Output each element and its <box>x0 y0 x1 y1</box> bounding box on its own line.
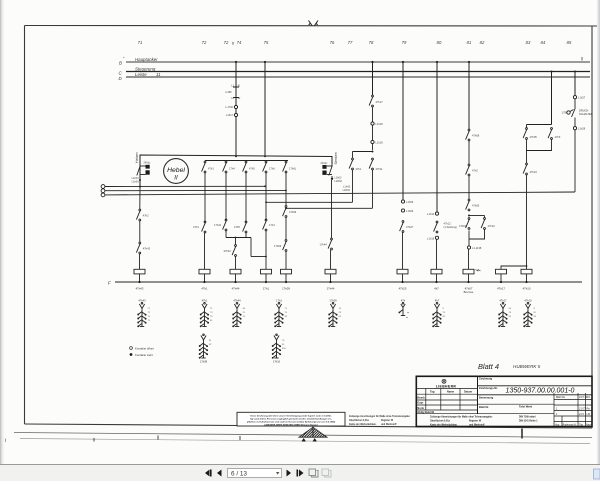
svg-text:Aug.: Aug. <box>554 424 560 427</box>
wire stub 84 <box>551 72 553 125</box>
svg-text:78: 78 <box>369 40 374 45</box>
svg-text:47h5: 47h5 <box>234 225 240 229</box>
wire col75 to coil <box>265 231 267 269</box>
svg-text:4-188: 4-188 <box>225 91 232 94</box>
svg-text:17h6: 17h6 <box>269 167 275 171</box>
svg-text:Benennung: Benennung <box>479 396 494 400</box>
switch Senken <box>327 164 333 178</box>
contact 17h41 lower <box>214 219 227 231</box>
view icon 2 <box>322 469 331 477</box>
wire col73 lower <box>225 173 227 220</box>
svg-text:L1h08: L1h08 <box>132 181 140 184</box>
svg-text:L1h14: L1h14 <box>427 212 435 216</box>
svg-text:47h12: 47h12 <box>444 222 452 226</box>
svg-text:71: 71 <box>138 40 143 45</box>
svg-text:82: 82 <box>480 40 485 45</box>
wire H2 <box>266 201 353 203</box>
svg-text:94: 94 <box>509 316 512 318</box>
F bus <box>115 281 582 283</box>
tree 4h7 <box>433 299 446 327</box>
contact 47h11 pair-right <box>369 158 383 171</box>
svg-text:47h1: 47h1 <box>208 167 214 171</box>
tree 47h17 <box>499 299 512 327</box>
svg-text:Änderung Nr.: Änderung Nr. <box>562 424 577 427</box>
svg-text:L1h05: L1h05 <box>406 200 414 204</box>
svg-text:17h1: 17h1 <box>269 223 275 227</box>
tree mini 47h25 <box>399 299 409 319</box>
svg-text:L1h15: L1h15 <box>427 236 435 240</box>
contact 47h2 col81 <box>466 164 479 176</box>
svg-text:47h44: 47h44 <box>232 287 240 291</box>
svg-text:(1-Stellung): (1-Stellung) <box>444 225 458 229</box>
wire drop 85 druckschalter <box>574 72 576 96</box>
contact 47h5 lower <box>234 221 247 233</box>
svg-text:Kante der Werkstückkan.: Kante der Werkstückkan. <box>349 423 377 426</box>
svg-text:73: 73 <box>210 312 213 314</box>
wire 84 to staple <box>526 175 528 269</box>
svg-text:Blatt Nr.: Blatt Nr. <box>479 405 489 409</box>
svg-text:11: 11 <box>156 72 161 77</box>
svg-text:1/78: 1/78 <box>561 111 567 115</box>
svg-text:Kante der Werkstückkan.: Kante der Werkstückkan. <box>430 423 458 426</box>
svg-text:Name: Name <box>586 424 593 427</box>
svg-text:47h1: 47h1 <box>356 167 362 171</box>
drawing frame <box>25 26 599 429</box>
svg-text:Oberflächen 0,01a: Oberflächen 0,01a <box>430 421 451 423</box>
svg-text:II: II <box>174 175 178 182</box>
svg-text:1350-937.00.00.001-0: 1350-937.00.00.001-0 <box>506 388 575 395</box>
contact 47h08 col81 <box>466 129 480 141</box>
svg-text:SCHALTER: SCHALTER <box>579 112 593 116</box>
wire pair81 bottom <box>469 230 485 240</box>
svg-text:82: 82 <box>209 344 212 346</box>
wire heben mid <box>139 221 141 243</box>
svg-text:Tafst Werk: Tafst Werk <box>519 405 533 409</box>
svg-text:47h17: 47h17 <box>499 299 507 303</box>
node stub 84 <box>551 71 553 73</box>
svg-text:1: 1 <box>556 413 558 416</box>
svg-text:LIEBHERR: LIEBHERR <box>436 385 457 389</box>
svg-text:DIN 3141 Reihe 1: DIN 3141 Reihe 1 <box>519 420 538 423</box>
wire heben to coil <box>139 254 141 269</box>
svg-text:Leiste: Leiste <box>135 72 147 77</box>
node L1h03 L1h08 labels <box>132 177 140 184</box>
svg-text:47h44: 47h44 <box>224 249 232 253</box>
svg-text:Diese Zeichnung darf ohne unse: Diese Zeichnung darf ohne unsere Genehmi… <box>251 414 332 417</box>
svg-text:L1R62: L1R62 <box>343 189 351 192</box>
node W2 end <box>285 190 287 192</box>
terminal circles left <box>101 185 105 197</box>
svg-text:17h1: 17h1 <box>263 287 270 291</box>
svg-text:72: 72 <box>224 40 229 45</box>
svg-text:78: 78 <box>509 312 512 314</box>
title block divider main <box>477 376 479 413</box>
svg-text:4h7: 4h7 <box>435 299 440 303</box>
svg-text:76: 76 <box>330 40 335 45</box>
terminal L1h27 <box>573 96 576 99</box>
svg-text:47h09: 47h09 <box>289 210 297 214</box>
wire col74b to coil <box>235 257 237 270</box>
node pair81 top <box>468 215 470 217</box>
svg-text:L1h25: L1h25 <box>376 122 384 126</box>
svg-text:46: 46 <box>509 308 512 310</box>
wire W2 <box>105 189 286 191</box>
svg-text:17h44: 17h44 <box>327 287 335 291</box>
svg-text:81: 81 <box>467 40 472 45</box>
terminal L1h25 <box>371 122 374 125</box>
svg-text:und Werkstoff: und Werkstoff <box>381 423 397 426</box>
coil 17h09 <box>281 269 292 282</box>
wire pair left stub <box>352 152 354 159</box>
svg-text:17h16: 17h16 <box>273 360 281 364</box>
svg-text:81: 81 <box>282 344 285 346</box>
svg-text:Zulässige Anordnungen für Maße: Zulässige Anordnungen für Maße ohne Tole… <box>349 415 410 418</box>
svg-text:L1R62: L1R62 <box>335 180 343 183</box>
svg-text:B: B <box>119 61 122 66</box>
terminal L1h15 <box>435 236 438 239</box>
wire col72 to coil <box>204 233 206 269</box>
coil 47h43 <box>134 269 145 282</box>
svg-text:Heben: Heben <box>135 152 139 163</box>
svg-text:47h05: 47h05 <box>530 135 538 139</box>
svg-text:47h1: 47h1 <box>201 287 208 291</box>
coil 4h7 <box>431 269 442 282</box>
svg-text:o: o <box>232 41 235 46</box>
svg-text:tigt noch dritten Personen zug: tigt noch dritten Personen zugänglich ge… <box>250 417 332 420</box>
legend <box>130 346 154 357</box>
svg-text:Blatt 4: Blatt 4 <box>478 362 499 371</box>
contact 47h27 col79 <box>400 221 414 233</box>
contact 17h6L <box>283 161 297 173</box>
svg-text:72: 72 <box>285 308 288 310</box>
wire H3 <box>286 207 373 209</box>
svg-text:47h04: 47h04 <box>459 224 467 228</box>
svg-text:L1h27: L1h27 <box>578 96 586 100</box>
contact 47h2 heben <box>136 209 149 221</box>
contact 17h6 col75 <box>263 161 276 173</box>
svg-text:76: 76 <box>339 308 342 310</box>
wire col74 to H7 <box>245 233 247 238</box>
svg-text:47h11: 47h11 <box>376 167 384 171</box>
svg-text:82a: 82a <box>282 348 286 350</box>
node dots on bus B <box>235 61 470 63</box>
fuse column 72 <box>233 62 239 157</box>
note text right of box <box>349 415 410 426</box>
svg-text:24Vdc: 24Vdc <box>321 162 329 165</box>
svg-text:47h24: 47h24 <box>530 170 538 174</box>
wire col75 lower <box>265 173 267 220</box>
svg-text:76: 76 <box>243 316 246 318</box>
terminal L1-1138 <box>467 246 470 249</box>
svg-text:Hebel: Hebel <box>167 167 185 174</box>
page number box <box>228 469 282 478</box>
svg-text:17h41: 17h41 <box>214 223 222 227</box>
svg-text:17h4: 17h4 <box>229 167 235 171</box>
svg-text:47h08: 47h08 <box>472 134 480 138</box>
svg-text:pflichten zu Schadenersatz und: pflichten zu Schadenersatz und sind bei … <box>247 421 336 424</box>
contact 47h5 col74 <box>243 161 256 173</box>
svg-text:9: 9 <box>534 308 536 310</box>
svg-text:Hauptanker: Hauptanker <box>135 57 158 62</box>
svg-text:47h43: 47h43 <box>143 247 151 251</box>
svg-text:74: 74 <box>148 316 151 318</box>
wire W1 <box>105 185 265 187</box>
svg-text:AO: AO <box>586 396 591 399</box>
svg-text:Tag: Tag <box>579 424 584 427</box>
svg-text:Steuerung: Steuerung <box>135 67 156 72</box>
svg-text:DRUCK-: DRUCK- <box>579 109 589 113</box>
contact 47h1 lower <box>193 221 206 233</box>
left table grid <box>416 389 554 414</box>
svg-text:Gepr: Gepr <box>417 401 423 405</box>
svg-text:D: D <box>119 76 123 81</box>
coil 17h44 <box>325 269 336 282</box>
svg-text:9: 9 <box>443 308 445 310</box>
svg-text:77: 77 <box>348 40 353 45</box>
svg-text:L1h06: L1h06 <box>406 209 414 213</box>
wire 78 mid <box>372 107 374 150</box>
wire 85 down to W3 <box>574 130 576 192</box>
labels pair bottom <box>343 186 351 193</box>
svg-text:17h09: 17h09 <box>274 244 282 248</box>
svg-text:47h5: 47h5 <box>249 167 255 171</box>
wire pair top 78 <box>353 151 373 153</box>
svg-text:94: 94 <box>339 316 342 318</box>
wire drop 78 <box>372 62 374 96</box>
svg-text:79: 79 <box>339 312 342 314</box>
diode block Heben <box>146 165 150 169</box>
contact 47h17 <box>369 95 383 107</box>
svg-text:47h10: 47h10 <box>523 287 531 291</box>
svg-text:71: 71 <box>148 308 151 310</box>
tick top right <box>581 57 583 61</box>
wire pair84 top <box>527 124 552 126</box>
note box <box>237 412 345 426</box>
prev page button <box>217 470 222 477</box>
svg-text:80: 80 <box>443 316 446 318</box>
contact 47h24 <box>523 163 537 175</box>
svg-text:71: 71 <box>210 308 213 310</box>
wire pair84 left join <box>526 140 528 151</box>
coil 17h1 <box>261 269 272 282</box>
svg-text:Kontakte zieht: Kontakte zieht <box>135 353 153 357</box>
tree row2 17h08 <box>199 334 212 364</box>
corner widget <box>594 469 600 479</box>
tolerance note block <box>430 416 538 427</box>
svg-text:17h44: 17h44 <box>320 243 328 247</box>
next page button <box>287 470 292 477</box>
svg-text:42: 42 <box>238 97 241 100</box>
wire senken to coil <box>330 250 332 269</box>
svg-text:47h27: 47h27 <box>406 225 414 229</box>
svg-text:Register W: Register W <box>381 419 394 422</box>
contact 47h1 pair-left <box>349 158 362 171</box>
wire 81 to coil <box>468 249 470 269</box>
fold triangle bottom <box>299 427 327 441</box>
svg-text:HUBWERK II: HUBWERK II <box>513 364 541 369</box>
svg-text:47h2: 47h2 <box>143 214 149 218</box>
contact 17h1 col75 <box>263 219 276 231</box>
svg-text:47h06: 47h06 <box>472 204 480 208</box>
terminal L1h14 <box>435 212 438 215</box>
svg-text:47h2: 47h2 <box>472 169 478 173</box>
revision grid right <box>554 393 592 427</box>
column numbers <box>138 40 572 46</box>
contact 47h12 col80 <box>434 221 457 233</box>
coil 47h10 <box>521 269 532 282</box>
wire col74b drop <box>235 238 237 246</box>
wire pair-left down <box>352 170 354 202</box>
svg-text:Register W: Register W <box>469 420 482 423</box>
svg-text:C: C <box>119 71 123 76</box>
svg-text:47h16: 47h16 <box>488 224 496 228</box>
node W1 end <box>264 185 266 187</box>
svg-text:Datum: Datum <box>464 390 473 394</box>
svg-text:17h6L: 17h6L <box>289 167 297 171</box>
coil 47h44 <box>230 269 241 282</box>
svg-text:78: 78 <box>210 316 213 318</box>
svg-text:47h: 47h <box>401 299 406 303</box>
svg-text:75: 75 <box>285 312 288 314</box>
wire drop 79 <box>402 62 404 200</box>
tree 47h44 <box>233 299 246 327</box>
wire Heben column lower <box>139 187 141 210</box>
contact 47h6 pair84-right <box>548 128 561 140</box>
terminal L1h06 <box>401 209 404 212</box>
svg-text:17h1: 17h1 <box>276 299 282 303</box>
svg-text:Blatt Nw: Blatt Nw <box>556 396 565 399</box>
svg-text:80: 80 <box>437 40 442 45</box>
node split 78 <box>372 151 374 153</box>
tree 47h1 <box>200 299 213 327</box>
svg-text:Abtlg Elektrik: Abtlg Elektrik <box>417 410 434 414</box>
node H7 <box>235 237 237 239</box>
svg-text:17h09: 17h09 <box>282 287 290 291</box>
contact 47h43 heben <box>136 242 150 254</box>
wire drop 75 <box>264 62 266 157</box>
svg-text:DIN 7168 mittel: DIN 7168 mittel <box>519 416 536 419</box>
svg-text:Bearb: Bearb <box>417 395 425 399</box>
wire col76a to coil <box>285 252 287 270</box>
svg-text:6 / 13: 6 / 13 <box>231 470 247 477</box>
svg-text:Tag: Tag <box>430 390 435 394</box>
svg-text:2.0.77: 2.0.77 <box>578 408 586 411</box>
svg-text:74: 74 <box>237 40 242 45</box>
svg-text:L-1700: L-1700 <box>225 106 233 109</box>
logo Liebherr <box>436 379 457 388</box>
svg-text:4h7: 4h7 <box>434 287 439 291</box>
svg-text:47h25: 47h25 <box>399 287 407 291</box>
title block outer <box>416 376 592 426</box>
coil 47h25 <box>397 269 408 282</box>
paper bottom line 2 <box>20 439 590 444</box>
wire col72 lower <box>204 173 206 222</box>
revision entries <box>554 396 593 427</box>
wire W3 <box>105 192 575 195</box>
svg-text:75: 75 <box>264 40 269 45</box>
svg-text:L1-1138: L1-1138 <box>472 246 482 250</box>
wire drop 81 <box>468 62 470 130</box>
svg-text:F: F <box>108 281 111 286</box>
node W1/Heben junction <box>139 186 141 188</box>
paper bottom line 1 <box>14 433 592 438</box>
svg-text:1: 1 <box>556 408 558 411</box>
svg-text:47h17: 47h17 <box>497 287 505 291</box>
rail second line <box>206 161 289 162</box>
wire pair84 left stub <box>526 125 528 129</box>
contact 47h1 col72 <box>202 161 215 173</box>
tree 17h09 <box>329 299 342 327</box>
node H2 left <box>265 201 267 203</box>
contact 47h44 <box>224 245 237 257</box>
svg-text:85: 85 <box>567 40 572 45</box>
terminal L1h26 <box>371 140 374 143</box>
coil 47h17 <box>496 269 507 282</box>
tree 47h10 <box>524 299 537 327</box>
svg-text:81: 81 <box>534 312 537 314</box>
svg-text:41: 41 <box>238 85 241 88</box>
bus labels <box>119 55 162 81</box>
wire Senken to contact <box>331 180 333 239</box>
svg-text:75: 75 <box>243 312 246 314</box>
wire 81 mid2 <box>468 176 470 200</box>
svg-text:LIEBHERR-WERK EHINGEN GMBH Eh: LIEBHERR-WERK EHINGEN GMBH Ehingen (Dona… <box>264 424 318 426</box>
node rail 75 <box>264 155 266 157</box>
svg-text:72: 72 <box>148 312 151 314</box>
top fold mark <box>309 21 319 26</box>
node 85 <box>574 71 576 73</box>
svg-text:83: 83 <box>526 40 531 45</box>
bottom tick marks <box>5 429 522 443</box>
svg-text:und Werkstoff: und Werkstoff <box>469 423 485 426</box>
svg-text:Name: Name <box>447 390 455 394</box>
wire pair84 bottom <box>527 140 552 164</box>
wire 80 to coil <box>436 239 438 269</box>
svg-text:Norm: Norm <box>417 406 424 410</box>
svg-text:72: 72 <box>202 40 207 45</box>
wire col74 lower <box>245 173 247 222</box>
contact 47h16 pair81-right <box>481 218 495 230</box>
node staple <box>526 265 528 267</box>
wire pair-right down <box>372 170 374 208</box>
contact 47h05 pair84-left <box>523 128 537 140</box>
svg-text:76: 76 <box>282 340 285 342</box>
node Senken terminal <box>331 178 333 180</box>
svg-text:Zeichnungs-Nr.: Zeichnungs-Nr. <box>479 386 498 390</box>
svg-text:47h43: 47h43 <box>136 287 144 291</box>
svg-text:47h43: 47h43 <box>138 299 146 303</box>
svg-text:17h08: 17h08 <box>200 360 208 364</box>
svg-text:75: 75 <box>148 320 151 322</box>
svg-text:LW: LW <box>587 413 591 416</box>
terminal L1h05 <box>401 200 404 203</box>
svg-text:L1h28: L1h28 <box>578 127 586 131</box>
svg-text:47h17: 47h17 <box>376 100 384 104</box>
wire 79 to coil <box>402 233 404 270</box>
bus D Leiste 11 <box>126 76 590 78</box>
coil 47h07 bremse <box>463 269 481 282</box>
svg-text:17h09: 17h09 <box>329 299 337 303</box>
bus C Steuerung <box>126 71 590 73</box>
wire H8 <box>250 238 252 257</box>
staple bridge <box>501 266 527 269</box>
wire col73 to H7 <box>225 231 227 238</box>
first page button <box>205 470 212 477</box>
view icon 1 <box>309 469 318 477</box>
wire H7 <box>226 237 251 239</box>
contact 47h09 <box>283 206 297 218</box>
svg-text:94: 94 <box>285 316 288 318</box>
